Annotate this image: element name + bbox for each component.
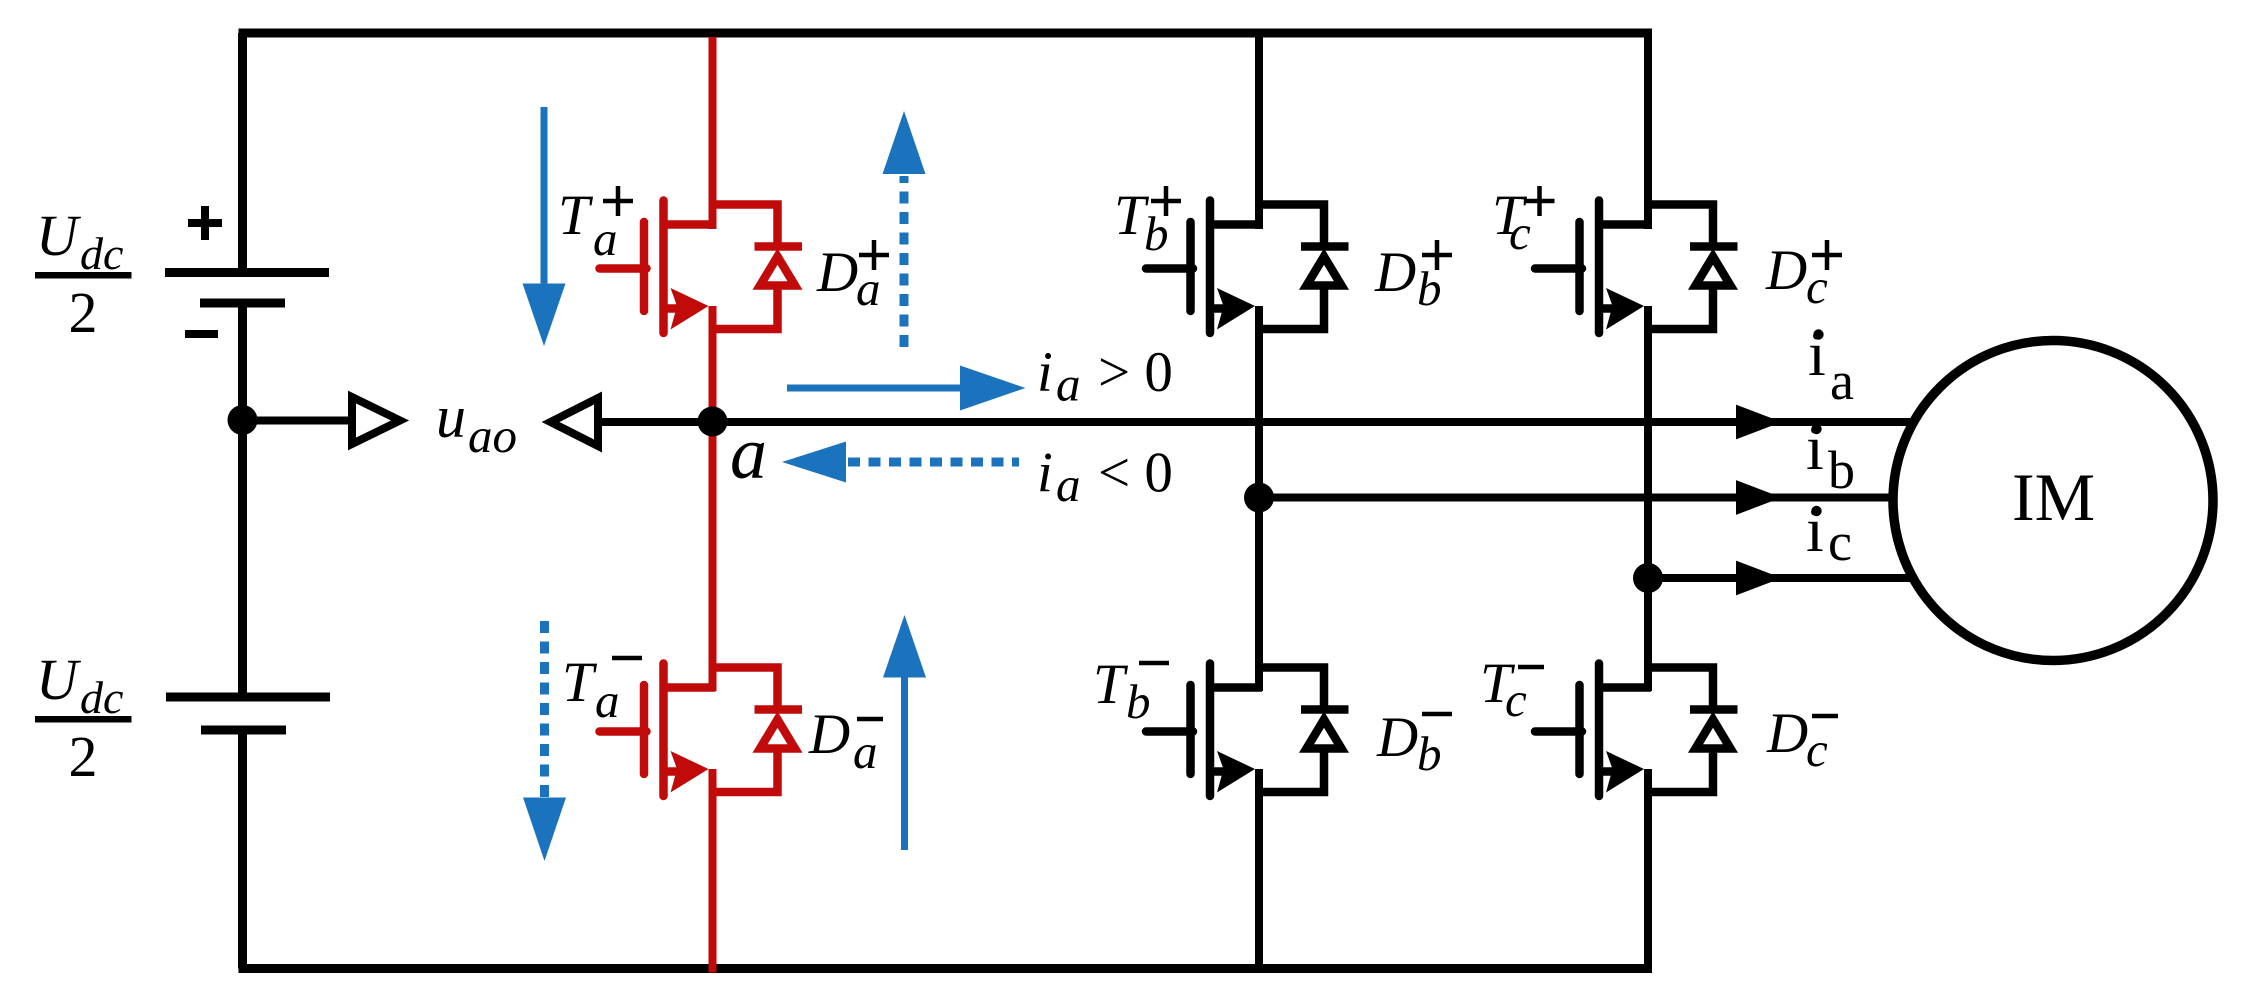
label Ta- — [562, 651, 642, 728]
svg-text:ao: ao — [468, 408, 517, 463]
svg-text:T: T — [558, 184, 594, 247]
label Dc- — [1766, 702, 1838, 777]
arrowhead phase b current into motor — [1736, 480, 1782, 515]
transistor Ta+ drain lead — [664, 220, 716, 229]
svg-text:D: D — [816, 241, 858, 304]
wire: top DC bus rail — [239, 29, 1653, 38]
current arrow: Ta- conduction (dashed blue down) — [523, 621, 566, 861]
current arrow: ia negative (dashed blue left) — [782, 442, 1019, 483]
transistor Ta- emitter lead — [664, 767, 695, 776]
transistor Ta+ emitter arrow — [671, 288, 709, 330]
transistor Tc+ emitter lead — [1599, 304, 1630, 313]
current arrow: Da+ freewheeling (dashed blue up) — [883, 111, 926, 347]
label current ia — [1808, 318, 1854, 411]
transistor Ta+ gate lead — [600, 264, 647, 273]
wire: u_ao probe from node o — [243, 417, 354, 425]
svg-text:2: 2 — [69, 280, 98, 345]
arrowhead phase c current into motor — [1736, 561, 1782, 596]
svg-text:2: 2 — [69, 724, 98, 789]
svg-text:> 0: > 0 — [1098, 341, 1173, 404]
wire: phase c output line to motor — [1648, 574, 1911, 582]
diode Da- bottom connection wire — [713, 749, 778, 793]
label Tb+ — [1114, 184, 1181, 261]
svg-text:T: T — [1093, 653, 1129, 716]
transistor Ta+ emitter lead — [664, 304, 695, 313]
label Tc+ — [1492, 184, 1555, 260]
svg-text:b: b — [1828, 440, 1855, 500]
svg-text:b: b — [1417, 726, 1442, 781]
u_ao probe arrow (right-pointing open triangle) — [352, 397, 400, 444]
label Da+ — [816, 240, 889, 316]
diode Db+ triangle — [1307, 257, 1342, 286]
svg-text:a: a — [595, 673, 620, 728]
svg-text:a: a — [593, 211, 618, 266]
battery upper Udc/2 negative plate — [200, 299, 285, 308]
diode Dc+ cathode bar — [1690, 242, 1738, 251]
value label Udc/2 lower : fraction bar — [35, 716, 132, 723]
svg-text:c: c — [1806, 259, 1828, 314]
label Ta+ — [558, 184, 633, 266]
wire: phase c leg middle segment through node c — [1644, 306, 1652, 691]
wire: phase a output line to motor — [598, 418, 1915, 426]
label Db- — [1376, 706, 1452, 781]
label Tc- — [1480, 652, 1544, 727]
wire: phase b leg lower segment — [1255, 769, 1263, 968]
transistor Tb- emitter lead — [1210, 767, 1241, 776]
battery lower Udc/2 positive plate — [166, 693, 330, 702]
wire: phase b leg middle segment through node b — [1255, 306, 1263, 691]
svg-text:i: i — [1806, 412, 1824, 483]
diode Dc- bottom connection wire — [1648, 749, 1713, 793]
svg-text:dc: dc — [80, 228, 123, 279]
diode Db- bottom connection wire — [1259, 749, 1324, 793]
diode Db- triangle — [1307, 720, 1342, 749]
svg-text:a: a — [1830, 351, 1854, 411]
label current ib — [1806, 412, 1855, 500]
transistor Tc+ drain lead — [1599, 220, 1651, 229]
wire: phase b output line to motor — [1259, 494, 1896, 502]
svg-text:i: i — [1808, 318, 1826, 389]
svg-text:a: a — [1056, 457, 1081, 512]
diode Db+ top connection wire — [1259, 205, 1324, 251]
transistor Tc- gate bar — [1575, 685, 1584, 774]
diode Da- top connection wire — [713, 668, 778, 714]
diode Dc- top connection wire — [1648, 668, 1713, 714]
transistor Tb+ drain lead — [1210, 220, 1262, 229]
transistor Tc+ gate bar — [1575, 222, 1584, 311]
transistor Ta- emitter arrow — [671, 751, 709, 793]
svg-text:b: b — [1126, 674, 1151, 729]
transistor Tb+ gate bar — [1186, 222, 1195, 311]
node b junction dot — [1244, 483, 1274, 513]
label Dc+ — [1765, 239, 1842, 314]
node c junction dot — [1633, 563, 1663, 593]
minus terminal sign — [185, 330, 218, 338]
transistor Tc+ channel bar — [1595, 201, 1604, 334]
node a junction dot — [698, 407, 728, 437]
diode Db- cathode bar — [1301, 705, 1349, 714]
svg-text:U: U — [36, 647, 82, 712]
label current ic — [1806, 494, 1852, 572]
diode Db+ cathode bar — [1301, 242, 1349, 251]
svg-text:c: c — [1828, 512, 1852, 572]
wire: phase c leg upper stub — [1644, 33, 1652, 229]
transistor Tc+ emitter arrow — [1606, 288, 1644, 330]
wire: left DC-link branch lower — [238, 732, 247, 969]
svg-text:c: c — [1505, 672, 1527, 727]
label Tb- — [1093, 653, 1169, 729]
transistor Tb- drain lead — [1210, 683, 1262, 692]
svg-text:dc: dc — [80, 672, 123, 723]
diode Dc+ top connection wire — [1648, 205, 1713, 251]
diode Da+ top connection wire — [713, 205, 778, 251]
transistor Tc+ gate lead — [1535, 264, 1582, 273]
current arrow: Da- freewheeling (solid blue up) — [883, 615, 926, 850]
svg-text:a: a — [853, 724, 878, 779]
svg-text:D: D — [1765, 239, 1807, 302]
svg-text:a: a — [856, 261, 881, 316]
wire: phase a leg (red) upper stub — [709, 37, 717, 229]
label ia &lt; 0 — [1037, 441, 1173, 512]
transistor Ta+ channel bar — [659, 201, 668, 334]
svg-text:D: D — [1376, 706, 1418, 769]
diode Dc- triangle — [1696, 720, 1731, 749]
diode Db- top connection wire — [1259, 668, 1324, 714]
svg-text:c: c — [1806, 722, 1828, 777]
transistor Tb+ gate lead — [1146, 264, 1193, 273]
svg-text:i: i — [1806, 494, 1824, 565]
svg-text:U: U — [36, 203, 82, 268]
svg-text:IM: IM — [2012, 459, 2095, 535]
wire: phase b leg upper stub — [1255, 33, 1263, 229]
transistor Tc- emitter lead — [1599, 767, 1630, 776]
battery upper Udc/2 positive plate — [165, 268, 329, 277]
wire: phase c leg lower segment — [1644, 769, 1652, 968]
diode Dc- cathode bar — [1690, 705, 1738, 714]
transistor Tb+ channel bar — [1206, 201, 1215, 334]
motor IM circle — [1893, 341, 2213, 661]
transistor Tc- gate lead — [1535, 727, 1582, 736]
diode Da- cathode bar — [755, 705, 803, 714]
wire: left DC-link branch middle — [238, 305, 247, 695]
diode Da+ cathode bar — [755, 242, 803, 251]
diode Dc+ bottom connection wire — [1648, 286, 1713, 330]
wire: left DC-link branch upper — [238, 33, 247, 270]
transistor Ta- drain lead — [664, 683, 716, 692]
transistor Tb+ emitter arrow — [1217, 288, 1255, 330]
svg-text:u: u — [436, 384, 466, 450]
transistor Tc- channel bar — [1595, 664, 1604, 797]
svg-text:c: c — [1509, 205, 1531, 260]
label ia &gt; 0 — [1037, 341, 1173, 412]
transistor Ta- gate lead — [600, 727, 647, 736]
svg-text:< 0: < 0 — [1098, 441, 1173, 504]
transistor Tb- gate bar — [1186, 685, 1195, 774]
wire: phase a leg (red) lower segment — [709, 769, 717, 973]
current arrow: Ta+ conduction (solid blue down) — [523, 107, 566, 346]
u_ao probe arrow (left-pointing open triangle) — [551, 398, 599, 446]
transistor Ta- channel bar — [659, 664, 668, 797]
plus terminal sign — [188, 206, 222, 240]
label Db+ — [1374, 240, 1452, 316]
label Da- — [808, 703, 883, 779]
diode Db+ bottom connection wire — [1259, 286, 1324, 330]
svg-text:a: a — [730, 413, 767, 495]
arrowhead phase a current into motor — [1736, 405, 1782, 440]
diode Da- triangle — [760, 720, 795, 749]
transistor Tc- emitter arrow — [1606, 751, 1644, 793]
transistor Tc- drain lead — [1599, 683, 1651, 692]
transistor Tb- emitter arrow — [1217, 751, 1255, 793]
svg-text:D: D — [1766, 702, 1808, 765]
battery lower Udc/2 negative plate — [201, 726, 286, 735]
wire: bottom DC bus rail — [239, 964, 1653, 973]
value label Udc/2 upper : fraction bar — [35, 272, 132, 279]
svg-text:i: i — [1037, 341, 1053, 404]
svg-text:i: i — [1037, 441, 1053, 504]
transistor Tb- channel bar — [1206, 664, 1215, 797]
wire: phase a leg (red) middle segment through node a — [709, 306, 717, 691]
svg-text:T: T — [562, 651, 598, 714]
current arrow: ia positive (solid blue right) — [787, 366, 1026, 411]
node o junction dot (DC midpoint) — [228, 405, 258, 435]
diode Da+ bottom connection wire — [713, 286, 778, 330]
svg-text:D: D — [808, 703, 850, 766]
diode Da+ triangle — [760, 257, 795, 286]
transistor Ta- gate bar — [640, 685, 649, 774]
svg-text:D: D — [1374, 241, 1416, 304]
svg-text:a: a — [1056, 357, 1081, 412]
transistor Tb- gate lead — [1146, 727, 1193, 736]
diode Dc+ triangle — [1696, 257, 1731, 286]
transistor Tb+ emitter lead — [1210, 304, 1241, 313]
transistor Ta+ gate bar — [640, 222, 649, 311]
